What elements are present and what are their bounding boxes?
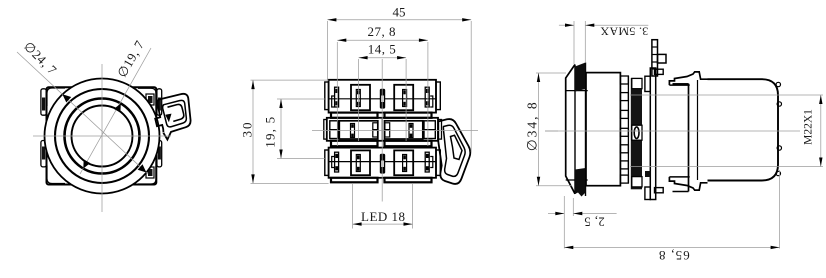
dim 45 (327, 5, 471, 22)
corner inner lines bottom-left (47, 166, 65, 184)
corner key detail top-right (146, 94, 154, 105)
bottom lever square left (655, 188, 664, 193)
ext 14.5 left (358, 59, 360, 141)
svg-text:M22X1: M22X1 (803, 109, 815, 145)
dim 34.8 (524, 73, 572, 186)
arrow d19.7 lower (83, 159, 90, 168)
svg-text:45: 45 (393, 5, 406, 20)
dim 3.5MAX (559, 21, 648, 64)
row3 center slot (380, 154, 385, 174)
bezel face lines (574, 65, 576, 195)
svg-text:65, 8: 65, 8 (658, 248, 690, 263)
top lever (669, 72, 707, 85)
lens oval (634, 127, 639, 139)
row2 right cap (424, 121, 435, 139)
svg-text:3. 5MAX: 3. 5MAX (600, 25, 648, 39)
row3 terminal2 (351, 150, 370, 175)
ext 27.8 left (336, 42, 338, 146)
block inner vertical (697, 80, 699, 180)
ext 27.8 right (427, 42, 429, 146)
svg-text:∅34, 8: ∅34, 8 (524, 100, 539, 151)
lid strip row1-row2 right (385, 113, 432, 118)
row3 outer (329, 148, 436, 178)
arrow d24.7 lower (138, 164, 147, 172)
head body (586, 73, 620, 186)
bottom flange (645, 187, 650, 200)
svg-text:27, 8: 27, 8 (368, 24, 397, 39)
thread teeth (627, 76, 629, 183)
row1 midline (329, 98, 436, 100)
ext 30 top (251, 79, 329, 81)
ext 19.5 bottom (277, 158, 325, 160)
dim 2.5 (548, 196, 617, 249)
dim 19.5 (263, 99, 283, 159)
corner inner lines top-right (138, 88, 156, 106)
bezel face cross lines (566, 90, 588, 92)
bottom lid strip left (331, 178, 378, 183)
corner key detail bottom-right (146, 167, 154, 178)
row1 terminal2 (351, 85, 370, 110)
bezel outer circle (45, 79, 160, 194)
corner inner lines bottom-right (138, 166, 156, 184)
button ring circle (65, 99, 140, 174)
center vertical (381, 59, 383, 202)
svg-text:19, 5: 19, 5 (263, 116, 278, 148)
lid strip row2-row3 left (331, 141, 378, 146)
M22 ext bottom (630, 166, 823, 168)
right tab upper (157, 89, 162, 115)
svg-text:LED 18: LED 18 (361, 209, 406, 224)
row1 left bracket (325, 82, 329, 110)
lid strip row1-row2 left (331, 113, 378, 118)
dim 65.8 (564, 170, 779, 263)
row1 terminal5 (425, 87, 429, 107)
svg-text:2, 5: 2, 5 (584, 214, 605, 228)
svg-text:30: 30 (240, 121, 255, 138)
row2 right far bracket (438, 120, 442, 140)
block outline (708, 79, 779, 180)
left tab upper (41, 89, 46, 115)
top post (652, 40, 658, 76)
post side tab (658, 54, 667, 63)
leader line d19.7 (80, 48, 151, 174)
dim M22X1 (803, 95, 823, 167)
gasket bottom (black) (575, 168, 586, 197)
dim 30 (240, 80, 255, 183)
left tab lower (41, 141, 46, 167)
centerline middle view (312, 129, 478, 131)
row3 right bracket (436, 150, 440, 175)
adapter plate (650, 68, 655, 200)
dim 27.8 (337, 24, 428, 42)
row1 terminal4 (394, 85, 413, 110)
arrow d19.7 upper (114, 104, 121, 113)
row1 right bracket (436, 82, 440, 110)
row1 terminal1 (332, 96, 335, 107)
row2 outer (327, 118, 438, 141)
block right nubs (776, 82, 780, 86)
svg-text:14, 5: 14, 5 (368, 41, 397, 56)
top flange (645, 76, 650, 91)
boot column dark (631, 78, 642, 189)
ext 14.5 right (405, 59, 407, 141)
ext LED left (352, 183, 354, 229)
row3 terminal4 (394, 150, 413, 175)
ext 45 left (326, 21, 328, 80)
row3 terminal5 (425, 152, 429, 172)
bezel inner circle (55, 89, 149, 183)
bottom lid strip right (385, 178, 432, 183)
row3 left bracket (325, 150, 329, 175)
row1 outer (329, 80, 436, 113)
latch loop (front view, right side) (155, 94, 190, 140)
boot window mid (632, 125, 642, 140)
block inner bottom edge (673, 191, 689, 193)
row3 midline (329, 161, 436, 163)
plate bottom dark bits (645, 171, 651, 177)
ext LED right (412, 183, 414, 229)
ext 19.5 top (277, 98, 325, 100)
square body (47, 87, 157, 184)
centerline vertical (101, 64, 103, 212)
centerline right view (545, 130, 800, 132)
row3 terminal1 (332, 157, 335, 168)
boot window top (632, 78, 642, 88)
row1 center slot (380, 89, 385, 109)
corner inner lines top-left (47, 88, 65, 106)
row2 left cap (330, 121, 338, 139)
ext 30 bottom (251, 182, 329, 184)
block front face (688, 84, 690, 192)
centerline horizontal (33, 135, 171, 137)
dim LED 18 (353, 209, 413, 226)
dim 14.5 (359, 41, 407, 59)
row2 zigzag left (373, 123, 378, 130)
bottom lever (669, 177, 707, 190)
latch loop (middle view) (438, 119, 470, 184)
centerline stub left (545, 130, 558, 132)
top lever square left (655, 69, 664, 74)
row2 big rect right (385, 121, 423, 139)
gasket top (black) (575, 63, 586, 92)
right tab lower (157, 141, 162, 167)
lid strip row2-row3 right (385, 141, 432, 146)
bezel left edge (566, 65, 575, 194)
button face circle (72, 106, 133, 167)
arrow d24.7 upper (62, 94, 71, 102)
row2 left far bracket (324, 120, 327, 140)
boot window bottom (632, 177, 642, 187)
ext 45 right (470, 21, 472, 152)
row2 big rect left (339, 121, 378, 139)
leader line d24.7 (17, 52, 148, 174)
row2 zigzag right (385, 123, 390, 130)
row2 center divider (381, 118, 383, 141)
block inner top edge (673, 83, 689, 85)
M22 ext top (630, 94, 823, 96)
